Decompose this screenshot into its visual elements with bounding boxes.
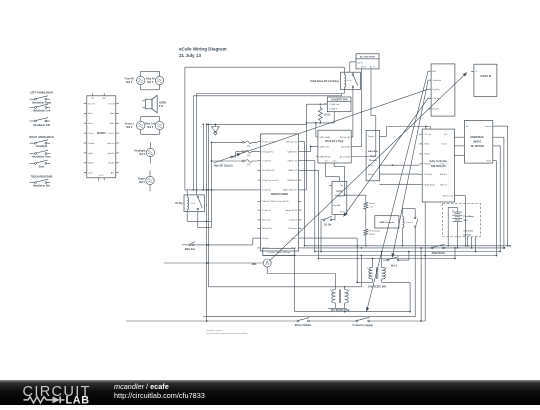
wire lamp pair 1 loop — [141, 71, 160, 90]
wire 12V top b — [344, 255, 363, 290]
wire CANH drop — [316, 123, 318, 137]
ammeter AM1 — [251, 259, 271, 274]
wire fuse feed vertical — [211, 142, 213, 190]
relay Solid State DC AC — [341, 72, 361, 89]
wire spine x206 — [206, 124, 208, 322]
wire contactor coil up — [403, 209, 416, 216]
wire bus right joins — [454, 247, 456, 259]
wire F-loop bottom — [185, 189, 258, 191]
switch Handlebar Left — [30, 104, 51, 113]
battery pack 96V — [443, 203, 481, 248]
relay On-Sig — [184, 190, 204, 212]
wire bus 2 — [302, 247, 505, 249]
wire shunt feed — [344, 194, 366, 196]
wire x310 down — [302, 147, 311, 152]
wire motor loop 2 — [493, 137, 504, 248]
wire 24V bot a — [356, 279, 372, 283]
wire throttle sig 2 — [380, 164, 420, 166]
fuse F2 — [242, 150, 258, 157]
junction top rect — [202, 123, 216, 125]
wire CAN bus upper — [306, 103, 327, 105]
label Motion Babble — [295, 324, 312, 327]
wire motor phase 3 — [456, 155, 462, 157]
switch Handlebar Horn — [30, 150, 52, 158]
resistor Shunt — [364, 195, 376, 210]
wire relay coil return — [196, 90, 344, 195]
wire AC N down — [353, 71, 362, 147]
signal arrow to Rasp Pi — [270, 72, 468, 261]
IC RASP PI — [471, 64, 497, 96]
wire 12V top a — [335, 274, 337, 290]
wire orion CANOL drop — [302, 161, 316, 253]
wire kelly B- down — [424, 202, 427, 321]
wire bus 4 — [263, 255, 497, 257]
wire y313 rail — [294, 255, 410, 312]
wire CAN vertical x306 — [302, 104, 307, 190]
wire battery drop 1 — [467, 237, 469, 247]
label CA On — [324, 223, 332, 226]
wire kelly return — [454, 196, 466, 247]
wire 24V top b — [381, 251, 383, 268]
fuse F3 — [243, 160, 258, 167]
transformer 12V DC/DC DSE — [330, 289, 352, 312]
wire left outer vertical — [184, 67, 186, 190]
fuse F1 — [243, 141, 258, 148]
svg-text:http://circuitlab.com/cfu7833: http://circuitlab.com/cfu7833 — [114, 391, 205, 400]
wire BTek CANL — [310, 146, 316, 148]
lamp Front Lt — [125, 121, 145, 129]
motor ENERTRAC MH602 DC MOTOR — [462, 120, 492, 163]
wire precharge bottom — [365, 237, 367, 246]
wire throttle sig 3 — [380, 173, 420, 175]
CircuitLab logo resistor zigzag — [24, 397, 53, 403]
box BMW Contactor — [375, 216, 399, 228]
wire orion Pack+ out — [302, 237, 358, 239]
box Cur sens Therm Cell taps — [263, 248, 295, 255]
wire contactor coil down — [402, 229, 404, 246]
footer bar — [0, 380, 540, 405]
title text — [179, 46, 227, 58]
label LEFT HANDLEBAR — [30, 92, 53, 95]
wire spine x203 — [202, 124, 204, 190]
IC Kelly Controller KBL0521 — [419, 129, 456, 202]
lamp Front Rt — [125, 76, 145, 84]
wire bus 3 — [315, 251, 501, 253]
wire CA On down — [320, 220, 322, 253]
wire to fuse F3 — [211, 160, 243, 162]
switch Motion Babble — [297, 318, 309, 322]
wire y316 rail — [203, 229, 415, 317]
junction battery leads — [447, 245, 458, 249]
label All LV — [391, 264, 398, 267]
control block MSD65 — [84, 93, 119, 180]
lamp Brake — [138, 170, 154, 191]
wire bus 5 — [318, 258, 455, 260]
label TBD HANDLEBAR — [31, 175, 53, 178]
wire motor hall loop — [493, 161, 497, 256]
wire orion DVD drop — [302, 142, 306, 247]
ground symbol — [212, 124, 220, 135]
wire throttle sig 1 — [380, 127, 387, 137]
label Rdy SP Chg On — [214, 164, 233, 167]
IC CANOPTR SPN — [324, 97, 351, 112]
wire to fuse F1 — [211, 141, 243, 143]
CircuitLab logo diode — [53, 396, 61, 403]
switch Handlebar Kill — [30, 118, 51, 127]
wire motor phase 1 — [456, 136, 462, 138]
switch Start — [30, 160, 50, 168]
wire bottom rail — [126, 320, 425, 322]
switch ABD CS CM — [428, 244, 448, 248]
IC Cycle Analyst — [329, 181, 347, 214]
connector AC CHG PORT — [350, 54, 379, 71]
wire bus drop right — [420, 247, 422, 322]
switch Handlebar Right — [30, 96, 52, 105]
wire motor ground loop — [493, 126, 508, 246]
wire 24V top a — [372, 258, 374, 268]
label Main Key — [185, 248, 196, 251]
signal arrow Rdy SP Chg On — [214, 89, 429, 163]
wire bus stub left — [164, 262, 263, 264]
switch Handlebar Brk — [30, 179, 51, 187]
wire spine x193 — [192, 96, 194, 190]
signal arrow to All LV — [392, 80, 429, 258]
wire AC G down — [353, 71, 376, 157]
wire BTek DC+ out — [334, 163, 344, 195]
svg-text:LAB: LAB — [66, 394, 90, 405]
junction bus dots — [356, 245, 511, 256]
wire battery drop 3 — [475, 237, 477, 253]
switch CA On — [321, 214, 335, 220]
wire AC H to relay — [349, 62, 351, 72]
wire F-loop left — [208, 124, 361, 286]
switch All LV — [383, 257, 409, 261]
wire battery drop 2 — [471, 237, 473, 249]
wire bus drop 1 — [356, 238, 358, 282]
label On-Sig — [175, 203, 183, 205]
label cell leads — [463, 231, 474, 237]
label battery — [463, 216, 474, 222]
wire onsig bottom a — [187, 212, 211, 223]
wire relay return 2 — [193, 94, 341, 96]
wire motor loop 3 — [493, 146, 500, 252]
speaker HORN 8 ohm — [142, 95, 166, 113]
resistor 120 ohm — [318, 106, 330, 123]
relay contactor switch — [405, 215, 419, 229]
wire orion gnd11 drop — [253, 238, 258, 245]
wire top rail — [185, 67, 344, 72]
IC MAGURA Twist Throttle — [366, 130, 379, 180]
note handlebar switches — [207, 329, 249, 335]
wire y309 rail — [328, 307, 347, 309]
lamp Rear Left — [145, 121, 164, 129]
lamp Headlight — [134, 142, 154, 163]
wire throttle sig 4 — [380, 184, 420, 186]
signal arrow to CA On — [343, 98, 428, 217]
wire onsig bottom b — [198, 190, 212, 228]
wire main key line — [182, 242, 253, 246]
lamp Rear Rt — [146, 76, 164, 84]
resistor PreCharge 500 — [364, 228, 381, 237]
transformer 24V DC/DC 96V — [367, 267, 389, 289]
wire y276 rail — [267, 273, 335, 275]
IC BTek 96 V Chgr — [316, 130, 353, 163]
wire orion CANLL drop — [302, 170, 320, 259]
label ABD CS CM — [431, 252, 444, 255]
wire CANOPTR to BTek — [333, 112, 335, 123]
IC ORION BMS — [258, 134, 302, 251]
relay contactor coil — [403, 215, 404, 229]
IC power distribution — [428, 64, 455, 116]
wire BTek DC- out — [325, 163, 339, 181]
signal arrow to contactor engage — [366, 71, 428, 312]
wire 12V bot a — [335, 303, 337, 308]
wire F-loop top — [208, 123, 306, 125]
wire kelly top feed — [387, 126, 431, 129]
wire CAN bus lower — [306, 122, 335, 124]
wire 12V bot b — [344, 303, 346, 313]
wire All LV to bus — [408, 251, 410, 260]
wire bus 1r — [305, 245, 511, 247]
wire shunt to precharge — [365, 211, 367, 228]
label Contactor engage — [353, 324, 374, 327]
wire lamp pair 2 loop — [141, 117, 160, 135]
wire 24V bot b — [382, 279, 411, 313]
wire relay sw bottom — [352, 90, 354, 138]
label Solid State DC AC Relay — [310, 80, 339, 83]
switch Headlight — [30, 140, 50, 148]
wire motor phase 2 — [456, 145, 462, 147]
label RIGHT HANDLEBAR — [29, 136, 53, 139]
wire fuse F2 jog — [232, 152, 242, 157]
switch Contactor engage — [356, 317, 370, 322]
switch Rdy SP lever — [231, 156, 233, 158]
